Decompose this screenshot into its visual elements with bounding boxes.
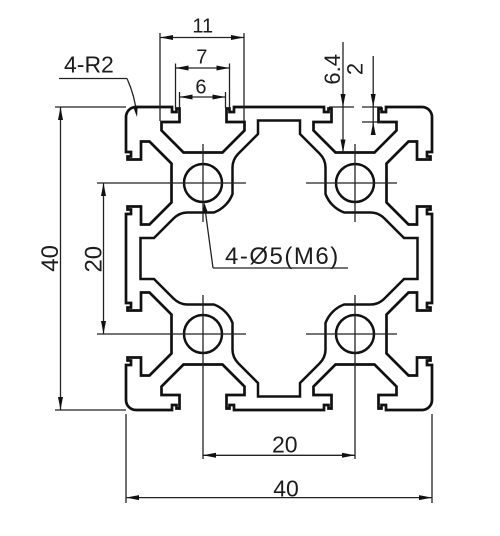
centerlines of holes: [97, 144, 397, 459]
svg-text:4-R2: 4-R2: [64, 52, 114, 78]
svg-text:6: 6: [195, 77, 206, 99]
hole C4 (5mm, M6 tap): [336, 315, 374, 353]
hole C2 (5mm, M6 tap): [336, 164, 374, 202]
dimension 6 (slot opening width): [180, 77, 226, 109]
hole C3 (5mm, M6 tap): [184, 315, 222, 353]
svg-text:20: 20: [272, 432, 298, 458]
dimension 7 (slot opening top width): [176, 46, 230, 109]
center cross cavity: [141, 121, 418, 397]
svg-text:4-Ø5(M6): 4-Ø5(M6): [225, 243, 340, 270]
svg-text:40: 40: [273, 476, 299, 502]
svg-text:40: 40: [37, 245, 64, 272]
dimension 40 (overall width, bottom): [126, 414, 432, 503]
svg-text:20: 20: [81, 246, 108, 273]
dimension 11 (slot cavity width): [160, 16, 244, 122]
svg-text:7: 7: [196, 46, 207, 68]
label 4-diam5(M6) (hole callout): [203, 202, 348, 270]
hole C1 (5mm, M6 tap): [184, 164, 222, 202]
dimension 20 (hole spacing, bottom): [203, 432, 355, 458]
dimension 6.4 (slot depth): [320, 42, 354, 153]
label 4-R2 (corner radius callout): [59, 52, 138, 118]
dimension 2 (lip thickness): [343, 56, 383, 135]
dimension 20 (hole spacing, left): [81, 183, 108, 334]
dimension 40 (overall height, left): [37, 107, 126, 410]
svg-text:11: 11: [192, 16, 213, 38]
svg-text:2: 2: [343, 63, 368, 75]
svg-text:6.4: 6.4: [320, 54, 345, 85]
profile outline with 8 T-slots: [126, 107, 432, 410]
